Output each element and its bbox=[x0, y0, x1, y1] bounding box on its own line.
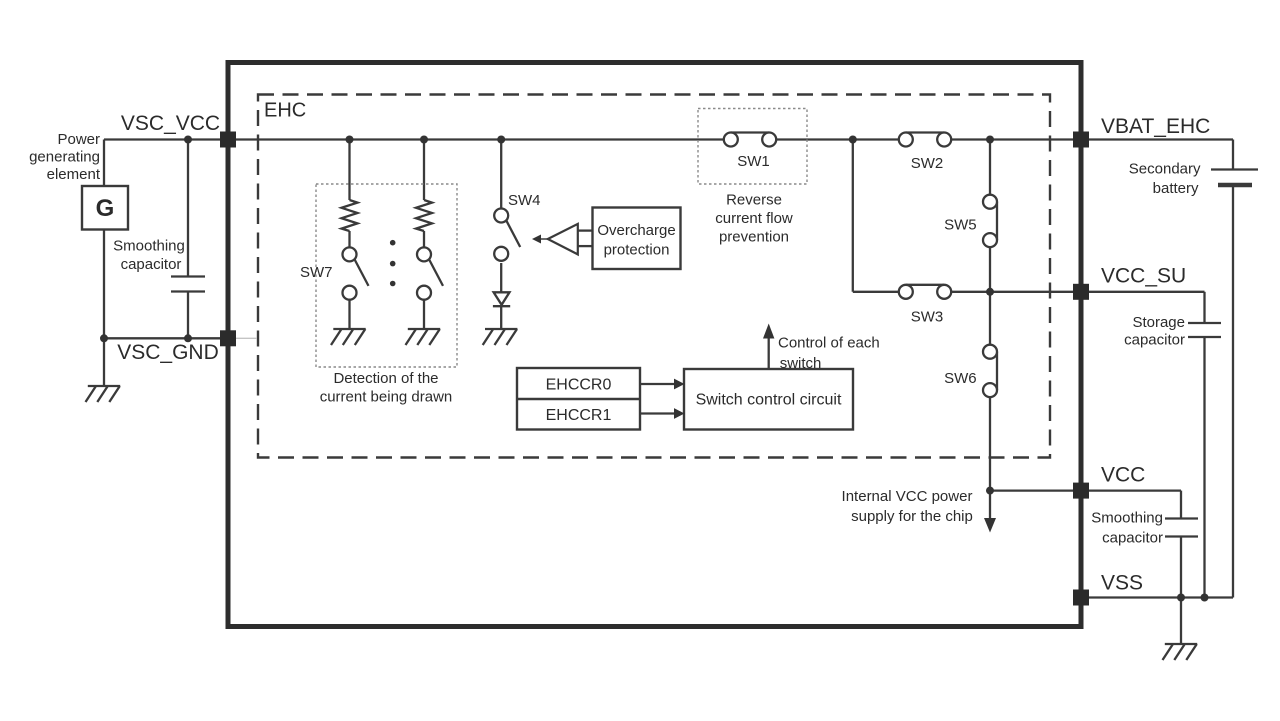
svg-text:Storage: Storage bbox=[1132, 314, 1185, 331]
svg-text:supply for the chip: supply for the chip bbox=[851, 508, 973, 525]
svg-text:element: element bbox=[47, 166, 101, 183]
svg-text:EHCCR1: EHCCR1 bbox=[546, 407, 612, 424]
svg-text:VSS: VSS bbox=[1101, 572, 1143, 595]
svg-text:capacitor: capacitor bbox=[1102, 530, 1163, 547]
svg-text:Secondary: Secondary bbox=[1129, 161, 1201, 178]
svg-text:capacitor: capacitor bbox=[121, 256, 182, 273]
svg-text:VCC: VCC bbox=[1101, 464, 1145, 487]
svg-text:SW6: SW6 bbox=[944, 370, 977, 387]
svg-text:current flow: current flow bbox=[715, 210, 793, 227]
svg-text:Switch control circuit: Switch control circuit bbox=[696, 392, 842, 409]
svg-text:Smoothing: Smoothing bbox=[113, 238, 185, 255]
svg-text:battery: battery bbox=[1153, 180, 1199, 197]
svg-text:VSC_GND: VSC_GND bbox=[117, 341, 219, 364]
svg-text:Control of each: Control of each bbox=[778, 335, 880, 352]
svg-text:SW3: SW3 bbox=[911, 309, 944, 326]
svg-text:VCC_SU: VCC_SU bbox=[1101, 265, 1186, 288]
svg-text:Power: Power bbox=[57, 131, 100, 148]
svg-text:switch: switch bbox=[780, 355, 822, 372]
svg-text:SW7: SW7 bbox=[300, 264, 333, 281]
svg-text:VSC_VCC: VSC_VCC bbox=[121, 112, 220, 135]
svg-text:current being drawn: current being drawn bbox=[320, 389, 453, 406]
svg-text:prevention: prevention bbox=[719, 229, 789, 246]
svg-text:SW1: SW1 bbox=[737, 153, 770, 170]
svg-text:VBAT_EHC: VBAT_EHC bbox=[1101, 115, 1210, 138]
svg-text:EHCCR0: EHCCR0 bbox=[546, 377, 612, 394]
svg-text:EHC: EHC bbox=[264, 100, 306, 122]
svg-text:capacitor: capacitor bbox=[1124, 332, 1185, 349]
svg-text:Reverse: Reverse bbox=[726, 192, 782, 209]
svg-text:G: G bbox=[96, 195, 115, 222]
svg-text:Overcharge: Overcharge bbox=[597, 222, 675, 239]
svg-text:SW4: SW4 bbox=[508, 192, 541, 209]
svg-text:Smoothing: Smoothing bbox=[1091, 510, 1163, 527]
svg-text:Internal VCC power: Internal VCC power bbox=[842, 488, 973, 505]
svg-text:SW2: SW2 bbox=[911, 155, 944, 172]
svg-text:protection: protection bbox=[604, 242, 670, 259]
svg-text:generating: generating bbox=[29, 149, 100, 166]
svg-text:Detection of the: Detection of the bbox=[333, 370, 438, 387]
svg-text:SW5: SW5 bbox=[944, 217, 977, 234]
